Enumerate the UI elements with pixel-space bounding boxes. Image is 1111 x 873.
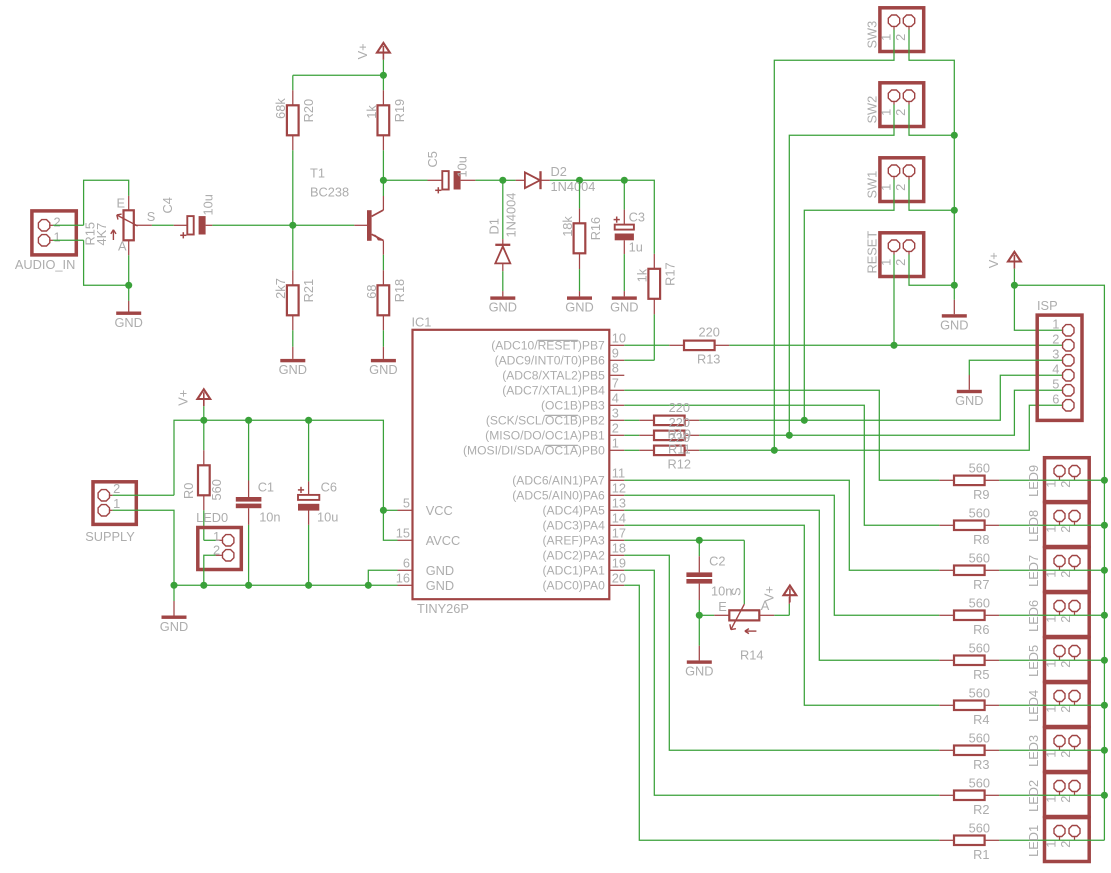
svg-text:ISP: ISP (1037, 298, 1058, 313)
svg-text:18k: 18k (560, 216, 575, 237)
svg-text:1: 1 (1052, 317, 1059, 332)
svg-text:GND: GND (489, 300, 517, 315)
svg-text:68: 68 (364, 285, 379, 299)
svg-text:V+: V+ (986, 252, 1001, 268)
svg-text:1N4004: 1N4004 (504, 193, 519, 238)
svg-text:R13: R13 (697, 352, 720, 367)
svg-text:D2: D2 (551, 164, 567, 179)
svg-text:SW1: SW1 (865, 171, 880, 199)
svg-text:1: 1 (612, 436, 619, 451)
svg-text:10u: 10u (455, 156, 470, 177)
svg-text:R1: R1 (973, 847, 989, 862)
svg-text:C2: C2 (709, 553, 725, 568)
svg-text:2: 2 (1058, 571, 1073, 578)
svg-text:560: 560 (969, 730, 990, 745)
svg-text:T1: T1 (310, 165, 325, 180)
svg-text:2: 2 (1058, 796, 1073, 803)
svg-text:560: 560 (969, 460, 990, 475)
svg-text:GND: GND (160, 619, 188, 634)
svg-text:SUPPLY: SUPPLY (85, 529, 135, 544)
svg-text:R14: R14 (740, 648, 763, 663)
svg-text:(ADC9/INT0/T0)PB6: (ADC9/INT0/T0)PB6 (495, 353, 605, 367)
svg-text:2: 2 (1058, 481, 1073, 488)
svg-text:560: 560 (969, 550, 990, 565)
svg-text:(ADC8/XTAL2)PB5: (ADC8/XTAL2)PB5 (502, 368, 605, 382)
svg-text:GND: GND (279, 362, 307, 377)
svg-text:R18: R18 (392, 279, 407, 302)
svg-text:560: 560 (969, 685, 990, 700)
svg-text:2k7: 2k7 (273, 278, 288, 299)
svg-text:D1: D1 (487, 218, 502, 234)
svg-text:2: 2 (113, 481, 120, 496)
svg-text:R0: R0 (181, 483, 196, 499)
svg-text:TINY26P: TINY26P (417, 601, 469, 616)
svg-text:R8: R8 (973, 532, 989, 547)
svg-text:AVCC: AVCC (426, 533, 461, 548)
svg-text:A: A (118, 239, 127, 254)
svg-text:GND: GND (610, 300, 638, 315)
svg-text:R5: R5 (973, 667, 989, 682)
svg-text:1: 1 (54, 229, 61, 244)
svg-text:2: 2 (1058, 841, 1073, 848)
svg-text:2: 2 (1058, 526, 1073, 533)
svg-text:1: 1 (1043, 751, 1058, 758)
svg-text:R12: R12 (668, 457, 691, 472)
svg-text:2: 2 (893, 184, 908, 191)
svg-text:GND: GND (955, 393, 983, 408)
svg-text:20: 20 (612, 571, 626, 586)
svg-text:4: 4 (612, 391, 619, 406)
svg-text:3: 3 (612, 406, 619, 421)
svg-text:R2: R2 (973, 802, 989, 817)
svg-text:14: 14 (612, 511, 626, 526)
svg-text:LED5: LED5 (1026, 645, 1041, 677)
svg-text:2: 2 (1052, 332, 1059, 347)
svg-text:2: 2 (1058, 706, 1073, 713)
svg-text:V+: V+ (355, 43, 370, 59)
svg-text:19: 19 (612, 556, 626, 571)
svg-text:68k: 68k (273, 98, 288, 119)
svg-text:220: 220 (669, 415, 690, 430)
svg-text:(ADC1)PA1: (ADC1)PA1 (543, 563, 606, 577)
svg-text:2: 2 (893, 34, 908, 41)
svg-text:(MISO/DO/OC1A)PB1: (MISO/DO/OC1A)PB1 (485, 428, 605, 442)
svg-text:GND: GND (685, 664, 713, 679)
svg-text:V+: V+ (175, 390, 190, 406)
svg-text:SW3: SW3 (865, 21, 880, 49)
svg-text:10n: 10n (259, 509, 280, 524)
svg-text:VCC: VCC (426, 503, 453, 518)
svg-text:LED0: LED0 (196, 510, 228, 525)
svg-text:1: 1 (1043, 841, 1058, 848)
svg-text:1: 1 (1043, 481, 1058, 488)
svg-text:R9: R9 (973, 487, 989, 502)
svg-text:7: 7 (612, 376, 619, 391)
svg-text:1: 1 (1043, 706, 1058, 713)
svg-text:560: 560 (969, 820, 990, 835)
svg-text:2: 2 (893, 259, 908, 266)
svg-text:R20: R20 (301, 99, 316, 122)
svg-text:R19: R19 (392, 99, 407, 122)
svg-text:LED8: LED8 (1026, 510, 1041, 542)
svg-text:1u: 1u (629, 240, 643, 255)
svg-text:1: 1 (878, 184, 893, 191)
svg-text:S: S (147, 209, 156, 224)
svg-text:GND: GND (940, 318, 968, 333)
svg-text:220: 220 (669, 430, 690, 445)
svg-text:1: 1 (113, 496, 120, 511)
svg-text:C6: C6 (321, 479, 337, 494)
svg-text:IC1: IC1 (412, 315, 432, 330)
svg-text:15: 15 (396, 526, 410, 541)
svg-text:(ADC0)PA0: (ADC0)PA0 (543, 578, 606, 592)
svg-text:1: 1 (878, 109, 893, 116)
svg-text:1k: 1k (364, 105, 379, 119)
svg-text:1: 1 (1043, 796, 1058, 803)
svg-text:18: 18 (612, 541, 626, 556)
svg-text:R4: R4 (973, 712, 989, 727)
svg-text:BC238: BC238 (310, 185, 349, 200)
svg-text:LED3: LED3 (1026, 735, 1041, 767)
svg-text:R21: R21 (301, 279, 316, 302)
svg-text:5: 5 (1052, 377, 1059, 392)
svg-text:R3: R3 (973, 757, 989, 772)
svg-text:LED1: LED1 (1026, 825, 1041, 857)
svg-text:6: 6 (1052, 392, 1059, 407)
svg-text:LED2: LED2 (1026, 780, 1041, 812)
svg-text:(ADC3)PA4: (ADC3)PA4 (543, 518, 606, 532)
svg-text:4K7: 4K7 (94, 223, 109, 246)
svg-text:(ADC5/AIN0)PA6: (ADC5/AIN0)PA6 (512, 488, 605, 502)
svg-text:1: 1 (878, 34, 893, 41)
svg-text:560: 560 (969, 775, 990, 790)
svg-text:560: 560 (969, 505, 990, 520)
svg-text:1: 1 (1043, 661, 1058, 668)
svg-text:560: 560 (969, 640, 990, 655)
svg-text:(ADC2)PA2: (ADC2)PA2 (543, 548, 606, 562)
svg-text:10u: 10u (317, 509, 338, 524)
svg-text:GND: GND (114, 315, 142, 330)
svg-text:2: 2 (1058, 616, 1073, 623)
svg-text:E: E (718, 599, 727, 614)
svg-text:LED4: LED4 (1026, 690, 1041, 722)
svg-text:(ADC7/XTAL1)PB4: (ADC7/XTAL1)PB4 (502, 383, 605, 397)
svg-text:(MOSI/DI/SDA/OC1A)PB0: (MOSI/DI/SDA/OC1A)PB0 (463, 443, 605, 457)
svg-text:5: 5 (403, 496, 410, 511)
svg-text:C1: C1 (258, 479, 274, 494)
svg-text:17: 17 (612, 526, 626, 541)
svg-text:(ADC4)PA5: (ADC4)PA5 (543, 503, 606, 517)
svg-text:LED6: LED6 (1026, 600, 1041, 632)
svg-text:R7: R7 (973, 577, 989, 592)
svg-text:(OC1B)PB3: (OC1B)PB3 (541, 398, 605, 412)
svg-text:560: 560 (209, 479, 224, 500)
svg-text:AUDIO_IN: AUDIO_IN (15, 257, 75, 272)
svg-text:R16: R16 (588, 217, 603, 240)
svg-text:SW2: SW2 (865, 96, 880, 124)
svg-text:6: 6 (403, 556, 410, 571)
svg-text:C4: C4 (160, 197, 175, 213)
svg-text:LED9: LED9 (1026, 465, 1041, 497)
svg-text:R6: R6 (973, 622, 989, 637)
svg-text:13: 13 (612, 496, 626, 511)
svg-text:12: 12 (612, 481, 626, 496)
svg-text:1k: 1k (635, 268, 650, 282)
svg-text:LED7: LED7 (1026, 555, 1041, 587)
svg-text:E: E (117, 196, 126, 211)
svg-text:11: 11 (612, 466, 625, 481)
svg-text:GND: GND (369, 362, 397, 377)
svg-text:R17: R17 (663, 262, 678, 285)
svg-text:1: 1 (878, 259, 893, 266)
svg-text:10u: 10u (200, 194, 215, 215)
svg-text:GND: GND (565, 300, 593, 315)
svg-text:2: 2 (1058, 661, 1073, 668)
svg-text:A: A (761, 598, 770, 613)
svg-text:1: 1 (1043, 571, 1058, 578)
svg-text:220: 220 (699, 325, 720, 340)
svg-text:C3: C3 (629, 210, 645, 225)
svg-text:1: 1 (1043, 616, 1058, 623)
svg-text:C5: C5 (425, 151, 440, 167)
svg-text:8: 8 (612, 361, 619, 376)
svg-text:4: 4 (1052, 362, 1059, 377)
svg-text:2: 2 (612, 421, 619, 436)
svg-text:GND: GND (426, 578, 454, 593)
svg-text:3: 3 (1052, 347, 1059, 362)
svg-text:2: 2 (1058, 751, 1073, 758)
svg-text:(ADC6/AIN1)PA7: (ADC6/AIN1)PA7 (512, 473, 605, 487)
svg-text:16: 16 (396, 571, 410, 586)
svg-text:9: 9 (612, 346, 619, 361)
svg-text:220: 220 (669, 400, 690, 415)
svg-text:10: 10 (612, 331, 626, 346)
svg-text:GND: GND (426, 563, 454, 578)
svg-text:2: 2 (893, 109, 908, 116)
svg-text:2: 2 (54, 214, 61, 229)
svg-text:RESET: RESET (865, 231, 880, 274)
svg-text:1N4004: 1N4004 (551, 179, 596, 194)
svg-text:(AREF)PA3: (AREF)PA3 (543, 533, 606, 547)
svg-text:S: S (729, 587, 744, 596)
svg-text:1: 1 (1043, 526, 1058, 533)
svg-text:560: 560 (969, 595, 990, 610)
